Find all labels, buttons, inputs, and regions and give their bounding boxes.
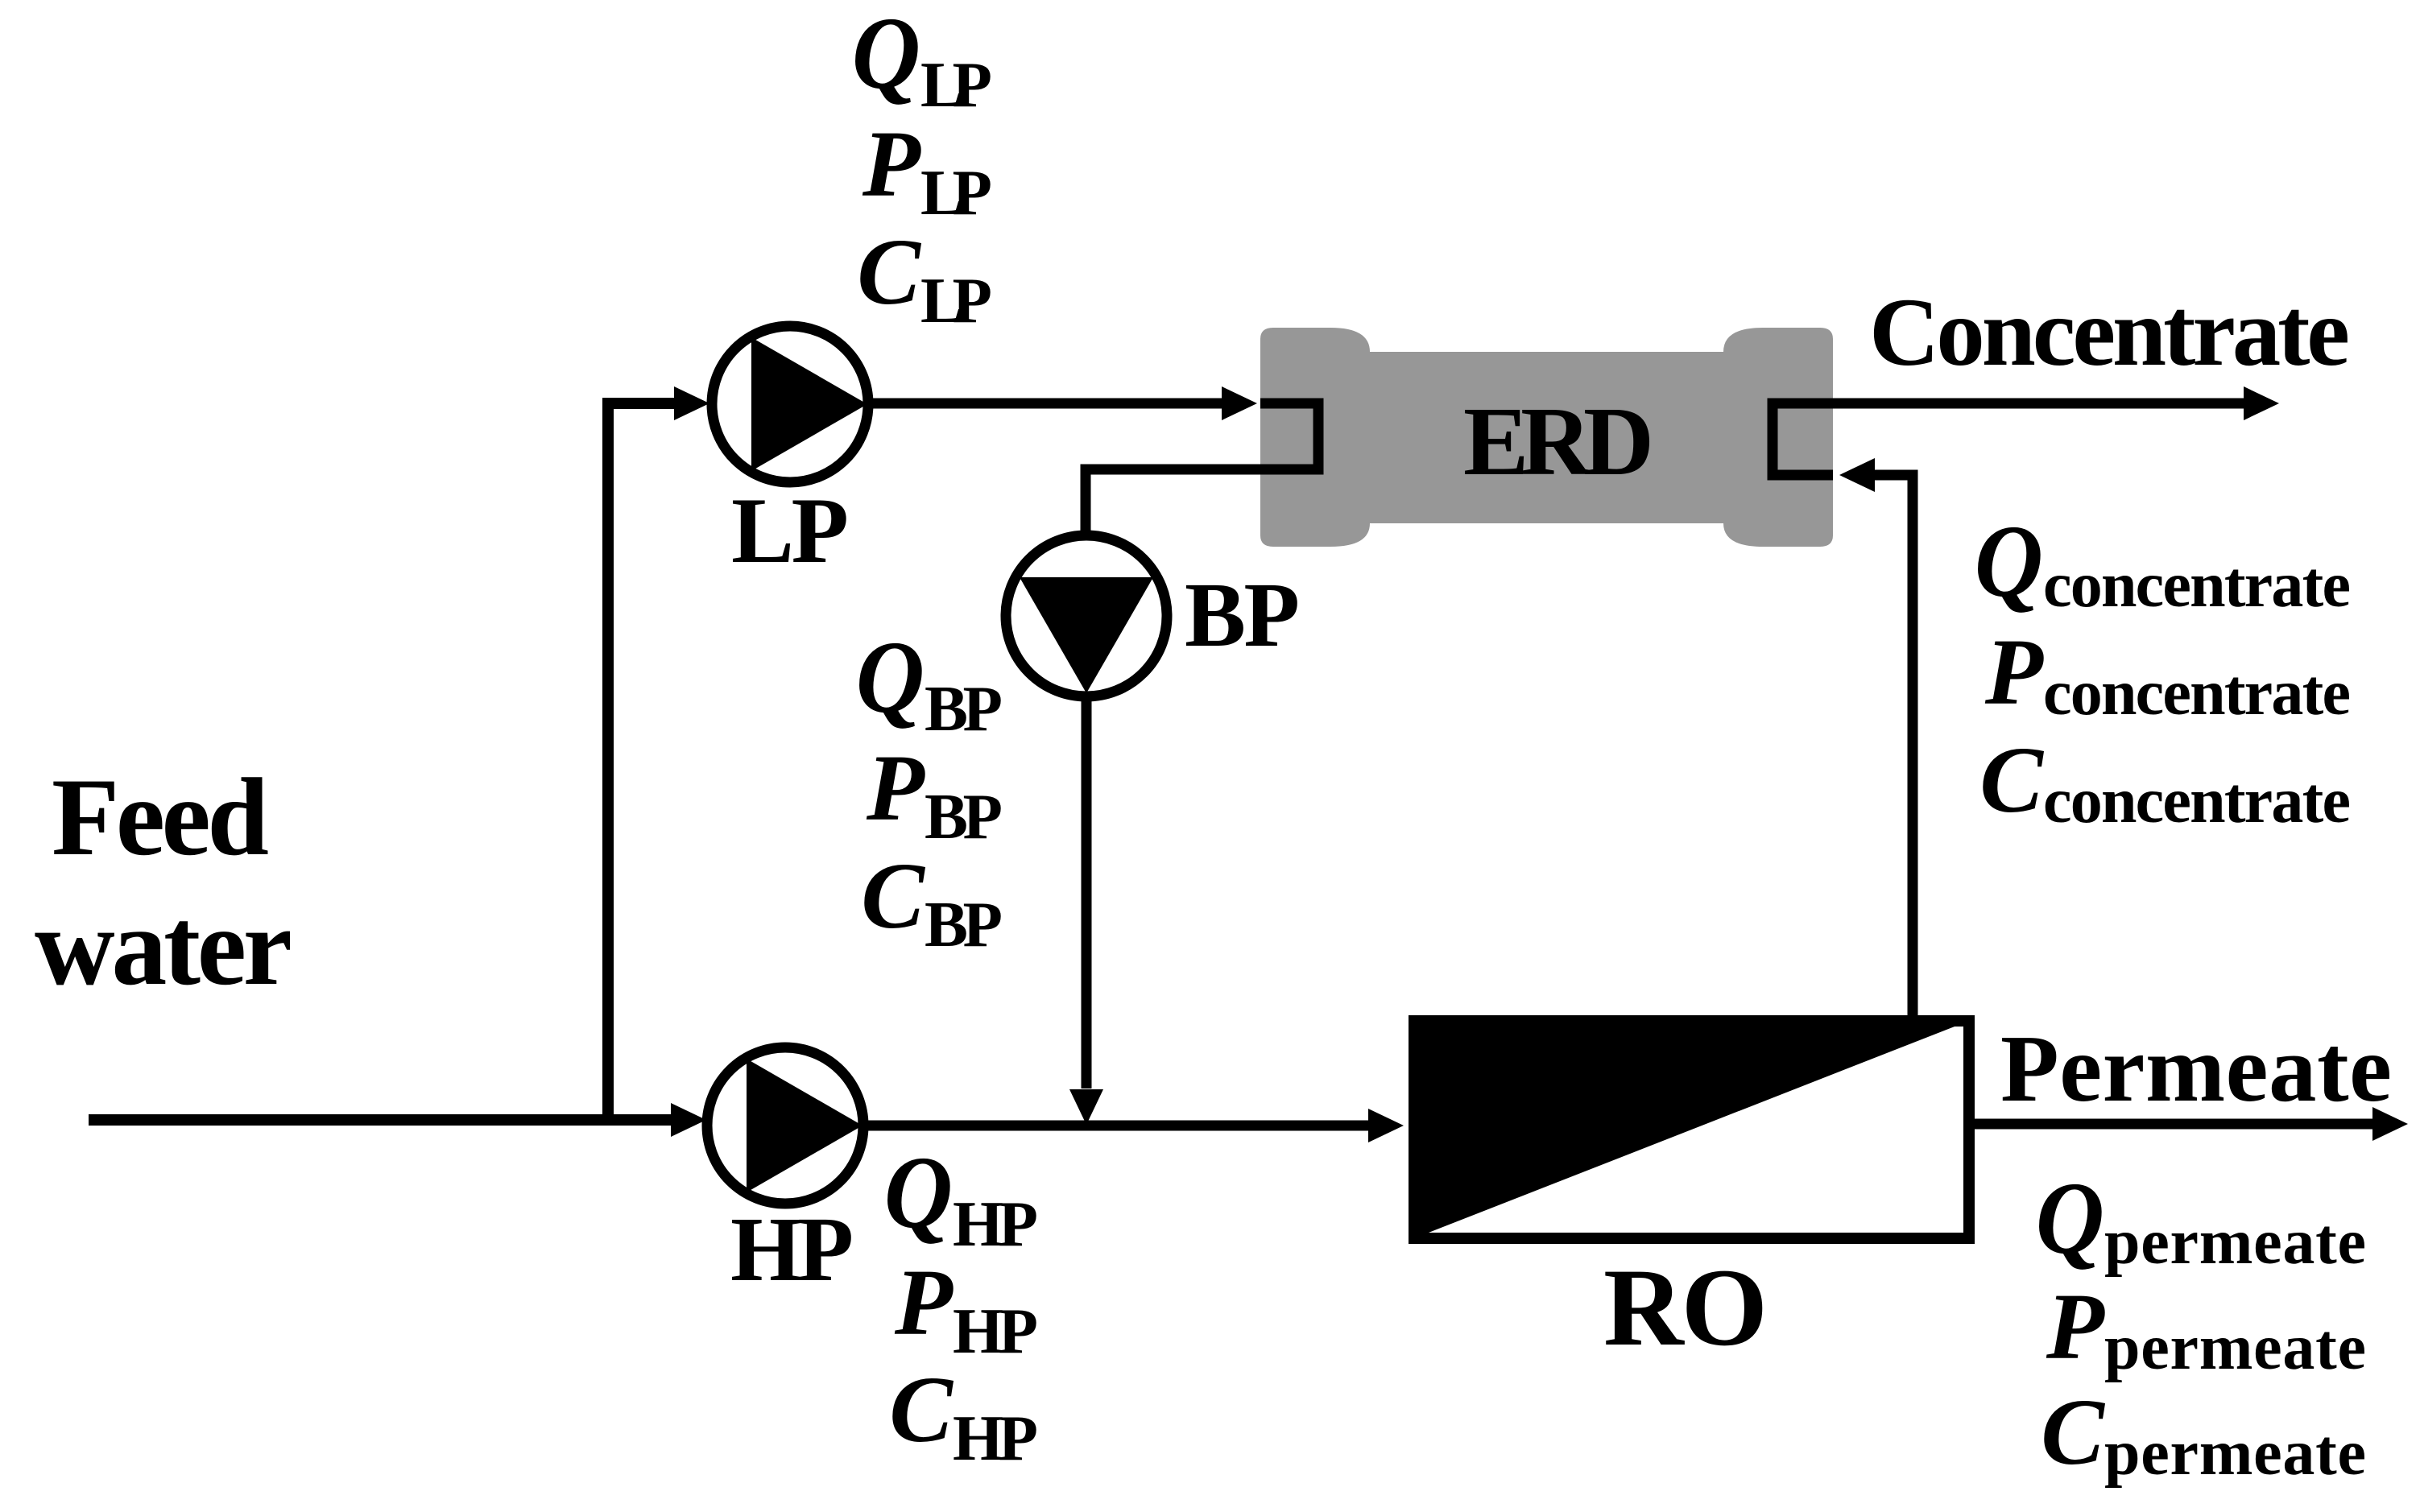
svg-text:P: P: [1984, 619, 2044, 725]
svg-text:Permeate: Permeate: [2000, 1015, 2392, 1122]
svg-text:BP: BP: [925, 672, 1003, 745]
svg-text:ERD: ERD: [1463, 387, 1654, 496]
svg-text:LP: LP: [920, 156, 992, 229]
svg-text:P: P: [862, 111, 921, 217]
svg-text:Concentrate: Concentrate: [1869, 279, 2350, 386]
svg-text:C: C: [861, 843, 925, 948]
svg-text:LP: LP: [731, 479, 849, 583]
pump LP circle: [712, 326, 868, 482]
arrow into LP pump: [674, 386, 709, 420]
svg-text:LP: LP: [920, 48, 992, 121]
wire HP outlet to RO: [859, 1121, 1368, 1131]
RO module black membrane triangle: [1414, 1021, 1969, 1238]
svg-text:concentrate: concentrate: [2043, 766, 2351, 837]
label Q concentrate: [1975, 503, 2351, 621]
svg-text:concentrate: concentrate: [2043, 658, 2351, 729]
pump HP circle: [707, 1047, 863, 1204]
ERD right port bracket and concentrate outlet wire: [1773, 403, 2244, 475]
svg-text:RO: RO: [1603, 1246, 1768, 1369]
arrow into RO module: [1368, 1109, 1404, 1142]
label C BP: [861, 843, 1003, 960]
arrow concentrate out: [2244, 386, 2279, 420]
label P permeate: [2046, 1274, 2366, 1383]
ERD left port bracket and BP suction wire: [1086, 403, 1318, 537]
label Q LP: [852, 0, 992, 121]
svg-text:C: C: [889, 1357, 954, 1462]
svg-text:C: C: [2041, 1379, 2105, 1485]
svg-text:Q: Q: [852, 0, 920, 110]
svg-text:HP: HP: [953, 1402, 1038, 1474]
svg-text:Q: Q: [884, 1134, 953, 1250]
svg-text:HP: HP: [953, 1188, 1038, 1260]
wire permeate out: [1975, 1119, 2372, 1130]
svg-text:permeate: permeate: [2104, 1312, 2366, 1383]
svg-text:permeate: permeate: [2104, 1418, 2366, 1489]
pump BP triangle: [1020, 577, 1153, 693]
svg-text:BP: BP: [925, 780, 1003, 853]
wire feed water main horizontal: [89, 1114, 672, 1126]
label Q BP: [856, 619, 1003, 745]
label P HP: [894, 1250, 1038, 1367]
arrow into HP pump: [671, 1103, 706, 1137]
arrow BP into HP line: [1069, 1089, 1103, 1125]
arrow permeate: [2372, 1107, 2408, 1141]
svg-text:permeate: permeate: [2104, 1207, 2366, 1278]
svg-text:BP: BP: [1185, 564, 1300, 666]
label C concentrate: [1979, 727, 2351, 837]
label P BP: [866, 735, 1003, 853]
wire LP outlet to ERD: [864, 399, 1223, 409]
arrow concentrate return into ERD right port: [1839, 458, 1875, 492]
svg-text:C: C: [1979, 727, 2044, 832]
wire feed branch up to LP: [608, 403, 674, 1120]
arrow into ERD left port: [1222, 386, 1257, 420]
label Feed water: [35, 755, 292, 1008]
svg-text:Q: Q: [856, 619, 925, 734]
svg-text:LP: LP: [920, 264, 992, 337]
svg-text:Q: Q: [2036, 1160, 2104, 1275]
svg-text:concentrate: concentrate: [2043, 550, 2351, 621]
ERD body (gray energy recovery device): [1260, 328, 1833, 547]
svg-text:HP: HP: [953, 1295, 1038, 1367]
svg-text:C: C: [857, 219, 921, 324]
RO module rectangle: [1414, 1021, 1969, 1238]
wire BP discharge down: [1082, 693, 1092, 1089]
svg-text:HP: HP: [730, 1198, 854, 1300]
svg-text:water: water: [35, 885, 292, 1008]
pump LP triangle: [751, 337, 867, 471]
label C permeate: [2041, 1379, 2366, 1489]
pump BP circle: [1006, 535, 1167, 696]
wire RO concentrate riser to ERD: [1875, 475, 1913, 1015]
label P LP: [862, 111, 992, 229]
svg-text:BP: BP: [925, 888, 1003, 960]
pump HP triangle: [747, 1059, 863, 1192]
label Q HP: [884, 1134, 1038, 1260]
svg-text:Q: Q: [1975, 503, 2043, 618]
svg-text:P: P: [866, 735, 925, 841]
label C HP: [889, 1357, 1038, 1474]
label Q permeate: [2036, 1160, 2366, 1278]
label P concentrate: [1984, 619, 2351, 729]
label C LP: [857, 219, 992, 337]
svg-text:Feed: Feed: [52, 755, 269, 878]
svg-text:P: P: [894, 1250, 954, 1355]
svg-text:P: P: [2046, 1274, 2105, 1379]
